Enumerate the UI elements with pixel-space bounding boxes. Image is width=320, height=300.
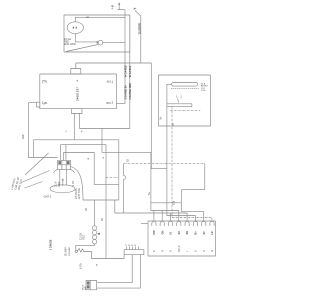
fuel pump connector X1 bbox=[58, 160, 71, 169]
svg-text:ENG GND: ENG GND bbox=[64, 43, 76, 46]
junction box J1 (top engine box) bbox=[64, 15, 130, 52]
svg-text:1 AT: 1 AT bbox=[72, 181, 75, 186]
svg-text:14 GA BLK: 14 GA BLK bbox=[129, 65, 132, 77]
slot bar in K1 bbox=[172, 83, 198, 87]
arrow in pump bbox=[62, 179, 64, 186]
wire: chain feed bbox=[94, 200, 96, 226]
wire: pump area run H_a bbox=[83, 199, 119, 201]
svg-text:1852: 1852 bbox=[125, 245, 137, 247]
wire: dash-dot run bbox=[124, 163, 205, 165]
wire V2 (box edge trunk) bbox=[129, 15, 131, 129]
svg-text:2: 2 bbox=[181, 95, 183, 98]
svg-text:B+: B+ bbox=[195, 231, 198, 235]
wire from bottom tab left pin bbox=[73, 114, 75, 140]
svg-text:AC: AC bbox=[178, 231, 181, 235]
dashed strip under slot bbox=[171, 88, 199, 90]
svg-text:A16: A16 bbox=[107, 81, 112, 84]
relay box K1 (right) bbox=[159, 75, 211, 126]
wire: dash-dot left leg with hop bbox=[124, 164, 126, 213]
ECM box U1 (big center box) bbox=[40, 74, 117, 109]
wire: left stub into X3 bbox=[141, 222, 148, 224]
pin1 arrow mark in U1 bbox=[76, 80, 78, 82]
wire: splice run into SP1 bbox=[122, 255, 125, 259]
svg-text:L: L bbox=[186, 250, 189, 252]
scallop pins on X3 bbox=[152, 221, 214, 226]
pointer in K1 bbox=[178, 99, 179, 103]
terminal nub at sensor bbox=[97, 41, 99, 43]
drop to pin3 bbox=[170, 213, 172, 221]
wire: K1 second leg down to pin8 bbox=[172, 107, 212, 222]
battery connector X2 bbox=[86, 281, 97, 290]
wire: pump signal curve bbox=[71, 167, 84, 201]
wire H2 (fuel pump run) bbox=[61, 145, 106, 161]
connector tab bottom of U1 bbox=[72, 109, 83, 114]
svg-text:B1: B1 bbox=[45, 102, 49, 105]
svg-text:14 GA RED: 14 GA RED bbox=[124, 65, 127, 77]
svg-text:TO STRTR: TO STRTR bbox=[140, 23, 142, 35]
wire: K1 bar left leg down to pin6 bbox=[167, 107, 196, 222]
svg-text:4: 4 bbox=[112, 8, 114, 11]
svg-text:ANT TRG: ANT TRG bbox=[78, 188, 81, 199]
corner mark TL in U1 bbox=[43, 81, 45, 84]
svg-text:30 AMP: 30 AMP bbox=[65, 247, 68, 256]
wire: cross H to snake bbox=[151, 202, 181, 204]
svg-text:4: 4 bbox=[81, 131, 83, 134]
drop to pin1 bbox=[153, 211, 155, 222]
corner mark BR in U1 bbox=[111, 101, 113, 104]
wire V1 (B+ trunk) bbox=[124, 10, 126, 104]
callout leader 1 bbox=[22, 171, 50, 183]
flare left at X1 bottom bbox=[54, 169, 58, 173]
stud on U1 left edge bbox=[37, 102, 40, 107]
svg-text:COIL: COIL bbox=[201, 90, 207, 92]
svg-text:CIR BKR: CIR BKR bbox=[69, 247, 71, 256]
bulkhead connector X3 (bottom right) bbox=[148, 221, 216, 256]
svg-text:AU: AU bbox=[186, 231, 189, 235]
alternator A1 (ellipse) bbox=[67, 22, 83, 34]
wire: H2 long branch down to splice bbox=[105, 145, 107, 259]
wire from bottom tab right pin to pin4 run bbox=[80, 114, 130, 129]
svg-text:B+: B+ bbox=[160, 116, 163, 120]
svg-text:G: G bbox=[211, 250, 214, 252]
svg-text:st: st bbox=[87, 158, 89, 161]
up arrow to battery B+ bbox=[118, 3, 120, 9]
corner mark BL in U1 bbox=[43, 101, 45, 104]
svg-text:6: 6 bbox=[96, 264, 98, 267]
callout leader 2 bbox=[25, 182, 43, 189]
svg-text:SPLC: SPLC bbox=[178, 245, 181, 252]
svg-text:GN: GN bbox=[161, 231, 164, 235]
wire: alternator top to inner bus bbox=[75, 17, 125, 22]
wire: diagonal ground strap bbox=[66, 44, 98, 51]
svg-text:18: 18 bbox=[127, 159, 130, 162]
svg-text:B: B bbox=[153, 250, 156, 252]
wire: battery connector bottom run bbox=[97, 255, 141, 288]
wire: drop v94 bbox=[64, 153, 119, 185]
wire: dash-dot stub from long branch bbox=[106, 176, 119, 178]
svg-text:2 GA BLK GND: 2 GA BLK GND bbox=[129, 83, 132, 100]
svg-text:1 GAUGE: 1 GAUGE bbox=[49, 239, 52, 250]
svg-text:24681357: 24681357 bbox=[76, 87, 79, 101]
wire: alternator bottom lead bbox=[75, 34, 97, 42]
fuel pump FP1 (ellipse) bbox=[50, 185, 75, 193]
svg-text:GMT 5: GMT 5 bbox=[44, 196, 52, 199]
wire: dash-dot drop right bbox=[181, 164, 205, 190]
wire: chain to breaker bbox=[76, 244, 95, 250]
inline fuse chain F1 (four circles) bbox=[92, 226, 96, 230]
svg-text:2 GA RED B+: 2 GA RED B+ bbox=[124, 84, 127, 99]
arrow to starter bbox=[135, 11, 141, 17]
svg-text:B+: B+ bbox=[148, 191, 151, 195]
svg-text:B: B bbox=[195, 250, 198, 252]
svg-text:LP: LP bbox=[211, 231, 214, 235]
splice pack SP1 (small box) bbox=[124, 250, 144, 255]
svg-text:RED: RED bbox=[83, 235, 86, 240]
svg-text:ST: ST bbox=[203, 231, 206, 235]
wire H1 (ECM tab run to breakout) bbox=[34, 140, 119, 157]
svg-text:B16: B16 bbox=[107, 102, 112, 105]
wire: slot to bus bar leg bbox=[167, 84, 172, 104]
callout arrowhead at chain bbox=[97, 233, 100, 236]
svg-text:IG: IG bbox=[170, 232, 173, 235]
svg-text:R: R bbox=[161, 250, 164, 252]
svg-text:A28: A28 bbox=[22, 134, 25, 139]
wire: second pin up bbox=[65, 145, 67, 161]
ticks on SP1 bbox=[126, 247, 128, 250]
circuit breaker CB1 bbox=[75, 250, 77, 252]
svg-text:A5: A5 bbox=[85, 207, 88, 211]
wire: circle to V1 bbox=[103, 41, 125, 43]
svg-text:A1: A1 bbox=[45, 81, 49, 84]
tick on inner bus bbox=[86, 17, 89, 18]
callout leader 0 bbox=[25, 153, 49, 175]
drop to pin2 bbox=[161, 211, 163, 222]
sensor S1 (small circle) bbox=[98, 40, 103, 45]
svg-text:87a: 87a bbox=[172, 200, 175, 205]
wire: breaker out to splice run bbox=[85, 252, 123, 259]
svg-text:y: y bbox=[66, 130, 68, 133]
svg-text:1: 1 bbox=[176, 95, 178, 98]
wire: H_b into pin5 bbox=[115, 200, 187, 221]
svg-text:PW: PW bbox=[153, 230, 156, 235]
connector tab top of U1 bbox=[71, 69, 81, 75]
wire: U1 left to cab breakout bbox=[29, 103, 58, 158]
wire: v119 drop from H1 bbox=[118, 140, 120, 200]
wire: tab bus to right drop bbox=[76, 63, 167, 169]
alternator terminal marks bbox=[73, 27, 74, 29]
bus bar in K1 bbox=[167, 104, 192, 107]
wires: connector to pump bbox=[59, 169, 61, 185]
svg-text:G: G bbox=[170, 250, 173, 252]
wire: SP1 to battery connector top bbox=[97, 255, 133, 283]
svg-text:BAT: BAT bbox=[84, 285, 87, 290]
wire: branch down from tab bus bbox=[102, 129, 179, 222]
wire: U1 right edge to V1 bbox=[117, 103, 126, 105]
dash-dot lead in K1 bbox=[170, 109, 200, 111]
corner mark TR in U1 bbox=[111, 81, 113, 84]
svg-text:a: a bbox=[103, 157, 105, 160]
wire: snake down to pin7 bbox=[181, 190, 203, 222]
flare right at X1 bottom bbox=[71, 169, 75, 173]
svg-text:87: 87 bbox=[172, 122, 175, 125]
svg-text:R: R bbox=[203, 250, 206, 252]
svg-text:B2: B2 bbox=[101, 217, 104, 221]
svg-text:GAS: GAS bbox=[58, 181, 61, 187]
wire: starter lead down to bus bbox=[140, 16, 142, 63]
svg-text:6 GA: 6 GA bbox=[80, 263, 83, 269]
